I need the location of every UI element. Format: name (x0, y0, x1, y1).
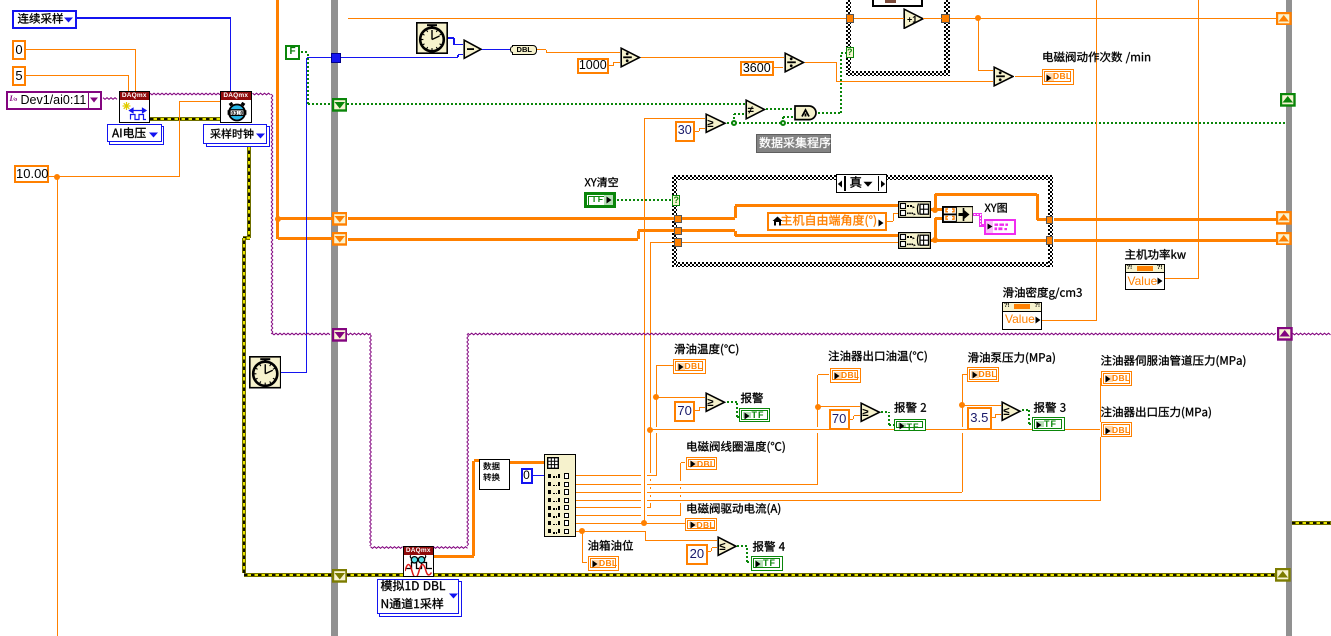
error wire to olive tunnel (244, 573, 332, 577)
case structure 1 selector label (clipped) (872, 0, 924, 7)
wire into oil temp DBL (656, 365, 673, 366)
numeric constant 10.00 (14, 165, 49, 183)
label 报警4 (753, 541, 785, 552)
index array node (544, 454, 576, 537)
crossing gap x650 row2 horiz repaint (649, 484, 651, 485)
junction channel 7 riser (641, 520, 647, 526)
label 滑油温度 (674, 343, 738, 355)
crossing gap row1 at x644 vert repaint (644, 475, 645, 477)
array wire case2 to SR 2 (1054, 218, 1277, 221)
numeric constant 3.5 (967, 407, 992, 430)
indicator 电磁阀驱动电流 DBL (685, 518, 717, 532)
wire divide c to DBL indicator (1015, 76, 1042, 77)
task wire Dev1 to create node (103, 98, 117, 100)
case structure 1 bottom border (846, 71, 950, 76)
case 2 left tunnel 1 (674, 215, 682, 224)
boolean not-equal to and (766, 108, 795, 110)
wire density value riser (1096, 0, 1097, 320)
boolean into TF2 (889, 424, 894, 426)
boolean into not-equal lower (734, 113, 746, 115)
wire DBL badge out (537, 49, 547, 50)
numeric constant 1000 (577, 58, 610, 74)
indicator 电磁阀动作次数 DBL (1042, 69, 1074, 85)
case 1 right tunnel (941, 14, 950, 24)
case 2 right tunnel 1 (1046, 216, 1054, 225)
wire into pump DBL (962, 374, 967, 375)
crossing gap x681 row4 horiz repaint (680, 500, 682, 501)
wire channel5 into case2 tunnel3 (650, 242, 674, 243)
cluster wire bundle to XY graph (973, 213, 983, 216)
wire into outlet temp DBL (818, 374, 830, 375)
crossing gap row5 at x644 (641, 507, 647, 508)
boolean junction 1 (731, 120, 737, 126)
wire to divide c lower (836, 81, 993, 82)
wire into divide a lower (613, 62, 620, 63)
wire channel3 riser (962, 375, 963, 493)
task wire into DAQmx read (371, 547, 403, 549)
wire subtract step (blue) (457, 55, 458, 58)
wire into gte30 lower (699, 128, 705, 129)
index array row 1 icons (548, 474, 552, 478)
wire count branch into divide c (978, 70, 993, 71)
index array row 7 icons (548, 521, 552, 525)
indicator 注油器伺服油管道压力 DBL (1101, 371, 1133, 387)
wire oil level drop (582, 531, 583, 562)
array wire from top (276, 0, 279, 239)
wire 30 step (699, 128, 700, 131)
case 2 selector dropdown arrow (863, 181, 873, 188)
wire into subtract upper (blue) (454, 44, 463, 45)
indicator 油箱油位 DBL (588, 556, 619, 571)
crossing gap x818 y429 horiz repaint (817, 429, 819, 430)
error wire timing down lower (242, 238, 246, 573)
label 滑油泵压力 (968, 352, 1055, 364)
wire const 0 drop (135, 49, 136, 91)
crossing gap x681 row2 (680, 481, 681, 487)
crossing gap row6 at x644 (641, 515, 647, 516)
wire blue tunnel to subtract (blue) (341, 57, 459, 58)
boolean drop to TF2 (888, 412, 890, 425)
wire divide a to divide b (641, 57, 784, 58)
orange shift register right 3 (up arrow) (1276, 232, 1292, 246)
boolean wire green tunnel to not-equal (347, 103, 746, 105)
case structure 1 left border (846, 0, 851, 76)
indicator 报警2 TF (894, 419, 926, 431)
boolean wire F out (301, 51, 308, 53)
wire power value out (1164, 278, 1199, 279)
label 数据采集程序 (759, 137, 830, 148)
boolean and out (818, 112, 842, 114)
wire step to divide a (546, 50, 547, 53)
polymorphic selector AI电压 (109, 126, 164, 145)
boolean wire F to green tunnel (308, 103, 332, 105)
wire 3.5 out (992, 417, 996, 418)
crossing gap x650 row2 (650, 481, 651, 487)
crossing gap x650 row4 (650, 497, 651, 503)
wire channel4 riser upper (1100, 378, 1101, 422)
array wire tunnel2 to case2 part2 (638, 229, 674, 232)
task wire DAQmx read out (434, 547, 468, 549)
case2 wire t2 run (682, 229, 735, 232)
orange tunnel 2 left (down arrow) (332, 232, 348, 246)
olive tunnel left (down arrow) (332, 569, 348, 583)
control XY清空 TF (584, 192, 617, 208)
label 油箱油位 (588, 540, 633, 551)
greater-or-equal 30 node (705, 113, 727, 134)
wire enum to timing node (blue) (77, 17, 231, 18)
channel row 8 (576, 531, 646, 532)
purple tunnel left (down arrow) (332, 328, 348, 342)
junction pump (959, 402, 965, 408)
case2 wire t3 to build array 2 lower (682, 242, 898, 243)
crossing gap x681 row3 (680, 489, 681, 495)
label 模拟1D DBL (381, 580, 445, 591)
wire 30 out (695, 131, 699, 132)
junction channel 8 (579, 528, 585, 534)
case 1 selector terminal (846, 47, 854, 58)
boolean gte70b out (881, 411, 889, 413)
label 主机自由端角度 (781, 214, 876, 226)
crossing gap x962 y429 horiz repaint (961, 429, 963, 430)
array wire tunnel1 to case2 (348, 217, 675, 220)
wire channel7 riser (644, 118, 645, 523)
wire 70b out (850, 419, 854, 420)
crossing gap row4 at x644 vert repaint (644, 499, 645, 501)
wire wait clock riser (blue) (306, 58, 307, 373)
label 采样时钟 (210, 129, 253, 139)
free label 数据采集程序 (gray) (756, 134, 831, 153)
wire density value out (1042, 320, 1097, 321)
label 滑油密度g/cm3 (1003, 287, 1082, 300)
wire tick count drop (blue) (453, 38, 454, 45)
wire enum to timing node drop (blue) (230, 18, 231, 91)
task wire long to purple tunnel right (468, 333, 1276, 335)
wire into gte30 upper (644, 118, 705, 119)
boolean constant F (285, 45, 300, 60)
DAQmx read node (403, 546, 435, 578)
build array node 2 (898, 232, 931, 249)
boolean wire gte30 out (727, 122, 1286, 124)
array wire tunnel2 step (637, 231, 640, 239)
crossing gap x650 row1 horiz repaint (649, 475, 651, 476)
local variable 主机自由端角度 (767, 212, 888, 231)
label 注油器伺服油管道压力 (1101, 355, 1245, 367)
wire 70b step (853, 416, 854, 420)
XY graph terminal (984, 219, 1017, 235)
wire channel6 riser (680, 463, 681, 516)
index array row 2 icons (548, 482, 552, 486)
indicator 报警4 TF (751, 556, 783, 571)
enum constant 连续采样 (12, 10, 77, 29)
wire into lte35 lower (996, 414, 1002, 415)
numeric constant 70 b (829, 409, 850, 431)
green shift register left (down arrow) (332, 98, 348, 112)
blue tunnel (loop left, i wire) (331, 53, 341, 63)
numeric constant 5 (12, 66, 26, 86)
count wire case1 to SR (950, 18, 1277, 19)
junction build array 1 out (932, 207, 938, 213)
channel row 6 (576, 515, 681, 516)
crossing gap x681 row3 horiz repaint (680, 492, 682, 493)
label 电磁阀动作次数/min (1043, 52, 1150, 64)
crossing gap row6 at x644 vert repaint (644, 514, 645, 516)
task wire purple tunnel to corner (347, 333, 371, 335)
case2 wire t1 riser (734, 206, 737, 219)
boolean drop to TF3 (1028, 410, 1030, 424)
boolean lte35 out (1022, 409, 1029, 411)
wire into subtract lower (blue) (458, 54, 463, 55)
junction 10.00 wire (54, 174, 60, 180)
label XY清空 (585, 177, 618, 187)
case 2 selector terminal ? (672, 195, 680, 207)
case structure 2 bottom border (672, 262, 1053, 267)
array wire to tunnel 2 (278, 237, 333, 240)
case 2 selector label frame (836, 174, 888, 193)
wire channel4 riser lower (1100, 437, 1101, 500)
property node 滑油密度 Value (1002, 302, 1042, 330)
case 1 left tunnel (846, 14, 855, 24)
wire 70a step (699, 407, 700, 411)
indicator 滑油温度 DBL (673, 359, 706, 374)
crossing gap row2 at x644 vert repaint (644, 483, 645, 485)
wire channel1 riser (656, 366, 657, 476)
boolean drop to TF1 (736, 402, 738, 416)
wire 1000 out (609, 65, 613, 66)
array wire read out (434, 555, 474, 558)
wire rate into timing node (180, 101, 220, 102)
task wire timing to corner (253, 93, 271, 95)
orange shift register right (up arrow) (1276, 12, 1292, 26)
channel row 2 (576, 484, 818, 485)
crossing gap x650 row3 (650, 489, 651, 495)
crossing gap x650 row3 horiz repaint (649, 492, 651, 493)
indicator 报警3 TF (1032, 417, 1065, 432)
label 真 (850, 176, 861, 188)
wire subtract to DBL badge (blue) (481, 49, 512, 50)
channel row 4 (576, 500, 1101, 501)
case2 wire ba1 drop to tunnel (1036, 194, 1039, 220)
boolean into case1 selector (841, 52, 846, 54)
divide node a (620, 47, 641, 68)
indicator 滑油泵压力 DBL (967, 367, 999, 383)
wire const 5 to create node (26, 75, 129, 76)
wire 10.00 out (49, 176, 180, 177)
wire count branch down (978, 18, 979, 71)
case2 wire build array 2 out (931, 239, 1046, 242)
case2 wire t1 to build array 1 (735, 204, 898, 207)
boolean gte70a out (727, 401, 737, 403)
label 注油器出口油温 (828, 350, 926, 362)
label enum 连续采样 (18, 13, 63, 24)
case2 wire t2 to build array 2 (735, 234, 898, 237)
label 主机功率kw (1125, 249, 1186, 260)
crossing gap row4 at x644 (641, 500, 647, 501)
wire 70a out (695, 410, 699, 411)
orange shift register right 2 (up arrow) (1276, 211, 1292, 225)
case2 wire into build array 1 lower (893, 213, 898, 214)
indicator 报警 TF (739, 408, 770, 423)
wait until next ms multiple function (249, 356, 282, 389)
label XY图 (985, 203, 1007, 213)
boolean lte20 out (737, 545, 747, 547)
bundle node (942, 206, 974, 223)
to-DBL conversion badge (512, 45, 537, 55)
wire into gte70a lower (699, 407, 705, 408)
label 报警 (741, 393, 763, 404)
error wire create to timing (150, 117, 220, 121)
array wire convert to index array (510, 461, 544, 464)
purple tunnel right (up arrow) (1277, 327, 1293, 341)
wire channel8 elbow down (645, 531, 646, 540)
numeric constant 30 (675, 121, 696, 142)
count wire case1 inside right (923, 18, 942, 19)
case2 wire t2 drop (734, 231, 737, 236)
label 数据转换 line2 (483, 473, 499, 481)
build array node 1 (898, 201, 931, 218)
property node 主机功率 Value (1125, 264, 1165, 290)
crossing gap x681 row4 (680, 497, 681, 503)
wire tick count out (blue) (448, 37, 454, 38)
array wire read riser (472, 461, 475, 557)
polymorphic selector 模拟1D DBL box (379, 581, 462, 617)
label 数据转换 line1 (483, 462, 499, 470)
tick count (ms) function (416, 22, 448, 54)
crossing gap x681 row2 horiz repaint (680, 484, 682, 485)
junction count wire (975, 15, 981, 21)
case2 wire ba2 into bundle lower (935, 217, 942, 220)
task wire right stub (1293, 333, 1331, 335)
while loop right border (1286, 0, 1292, 636)
wire channel8 to lte20 (645, 540, 717, 541)
orange tunnel 1 left (down arrow) (332, 212, 348, 226)
main count wire tunnel to case1 (348, 18, 847, 19)
crossing gap x818 y429 (817, 427, 818, 433)
numeric constant 20 (686, 544, 708, 566)
long wire to injector pressure DBL (650, 429, 1100, 430)
numeric constant 3600 (740, 61, 775, 77)
case structure 2 right border (1048, 175, 1053, 267)
wire power value riser (1198, 0, 1199, 278)
wire into gte70b upper (818, 406, 860, 407)
case2 wire build array 1 out (931, 208, 942, 211)
case structure 1 right border (944, 0, 950, 76)
green shift register right (up arrow) (1280, 93, 1296, 107)
wire into lte35 upper (962, 405, 1001, 406)
wire into oil level DBL (582, 562, 587, 563)
label 电磁阀线圈温度 (687, 441, 784, 453)
crossing gap x656 y429 (656, 427, 657, 433)
case 2 left tunnel 3 (674, 238, 682, 247)
case 2 selector right cell divider (878, 176, 880, 191)
wire 0 const to index array (blue) (533, 475, 545, 476)
olive shift register right (up arrow) (1275, 568, 1291, 582)
error wire across loop bottom (347, 573, 1275, 577)
task wire to purple tunnel (272, 333, 330, 335)
boolean into TF3 (1029, 423, 1032, 425)
index array row 6 icons (548, 513, 552, 517)
case2 wire ba1 riser (934, 194, 937, 209)
polymorphic selector 采样时钟 (206, 126, 270, 147)
array wire to tunnel 1 (278, 217, 333, 220)
case2 wire ba1 into right tunnel1 (1037, 218, 1046, 221)
not-equal node (745, 99, 766, 120)
crossing gap x650 row1 (650, 473, 651, 479)
channel row 1 (576, 475, 657, 476)
wire 10.00 down leg (57, 177, 58, 636)
task wire create to timing (150, 93, 220, 95)
indicator 电磁阀线圈温度 DBL (686, 457, 718, 470)
subVI 数据转换 (479, 459, 511, 490)
wire 1000 step (613, 63, 614, 66)
wire into lte20 lower (712, 547, 717, 548)
wire divide b drop (836, 62, 837, 81)
boolean junction 2 (780, 120, 786, 126)
indicator 注油器出口油温 DBL (830, 368, 861, 383)
boolean into TF4 (747, 561, 751, 563)
case structure 1 selector glyph fragment (885, 0, 896, 3)
task wire corner down (271, 94, 273, 334)
error wire jog (243, 236, 250, 240)
boolean wire F down (307, 52, 309, 104)
junction oil temp (653, 394, 659, 400)
array wire case2 to SR 3 (1054, 239, 1277, 242)
crossing gap row3 at x644 (641, 492, 647, 493)
boolean into TF1 (737, 416, 740, 418)
case structure 2 top border (672, 175, 1053, 180)
and gate node (794, 105, 819, 121)
case structure 2 left border (672, 175, 677, 267)
numeric constant 70 a (674, 401, 695, 422)
junction build array 2 out (932, 237, 938, 243)
array wire into convert subvi (474, 459, 479, 462)
DAQmx timing node (220, 91, 252, 123)
numeric constant 0 (12, 40, 26, 60)
divide node b (784, 52, 805, 73)
channel row 3 (576, 492, 963, 493)
case 2 selector decrement arrow (837, 179, 843, 189)
wire const 0 to create node (26, 49, 136, 50)
label 报警2 (894, 402, 926, 413)
boolean into and lower (783, 116, 794, 118)
case2 wire ba1 top run (935, 193, 1037, 196)
index array row 3 icons (548, 490, 552, 494)
array wire tunnel2 to case2 part1 (348, 238, 639, 241)
boolean and riser (840, 53, 842, 114)
case2 wire local var step (893, 213, 894, 221)
wire into blue tunnel (blue) (307, 57, 331, 58)
boolean drop to TF4 (746, 546, 748, 562)
greater-or-equal 70 node b (860, 402, 881, 423)
label AI电压 (112, 127, 146, 138)
label 电磁阀驱动电流 (687, 503, 780, 515)
subtract node (463, 39, 483, 60)
crossing gap row1 at x644 (641, 475, 647, 476)
index array row 5 icons (548, 506, 552, 510)
less-or-equal 20 node (717, 536, 738, 557)
wire into coil temp DBL (681, 462, 686, 463)
label 报警3 (1034, 402, 1066, 413)
case2 wire ba2 riser to bundle (934, 218, 937, 240)
case 2 left tunnel 2 (674, 227, 682, 236)
index array row 4 icons (548, 498, 552, 502)
case2 wire local var out (887, 221, 894, 222)
wire 10.00 rate riser (179, 101, 180, 177)
crossing gap row3 at x644 vert repaint (644, 491, 645, 493)
wire 20 out (708, 551, 712, 552)
wire into gte70a upper (656, 397, 705, 398)
wire into divide a (546, 52, 620, 53)
task wire read out riser (467, 334, 469, 546)
